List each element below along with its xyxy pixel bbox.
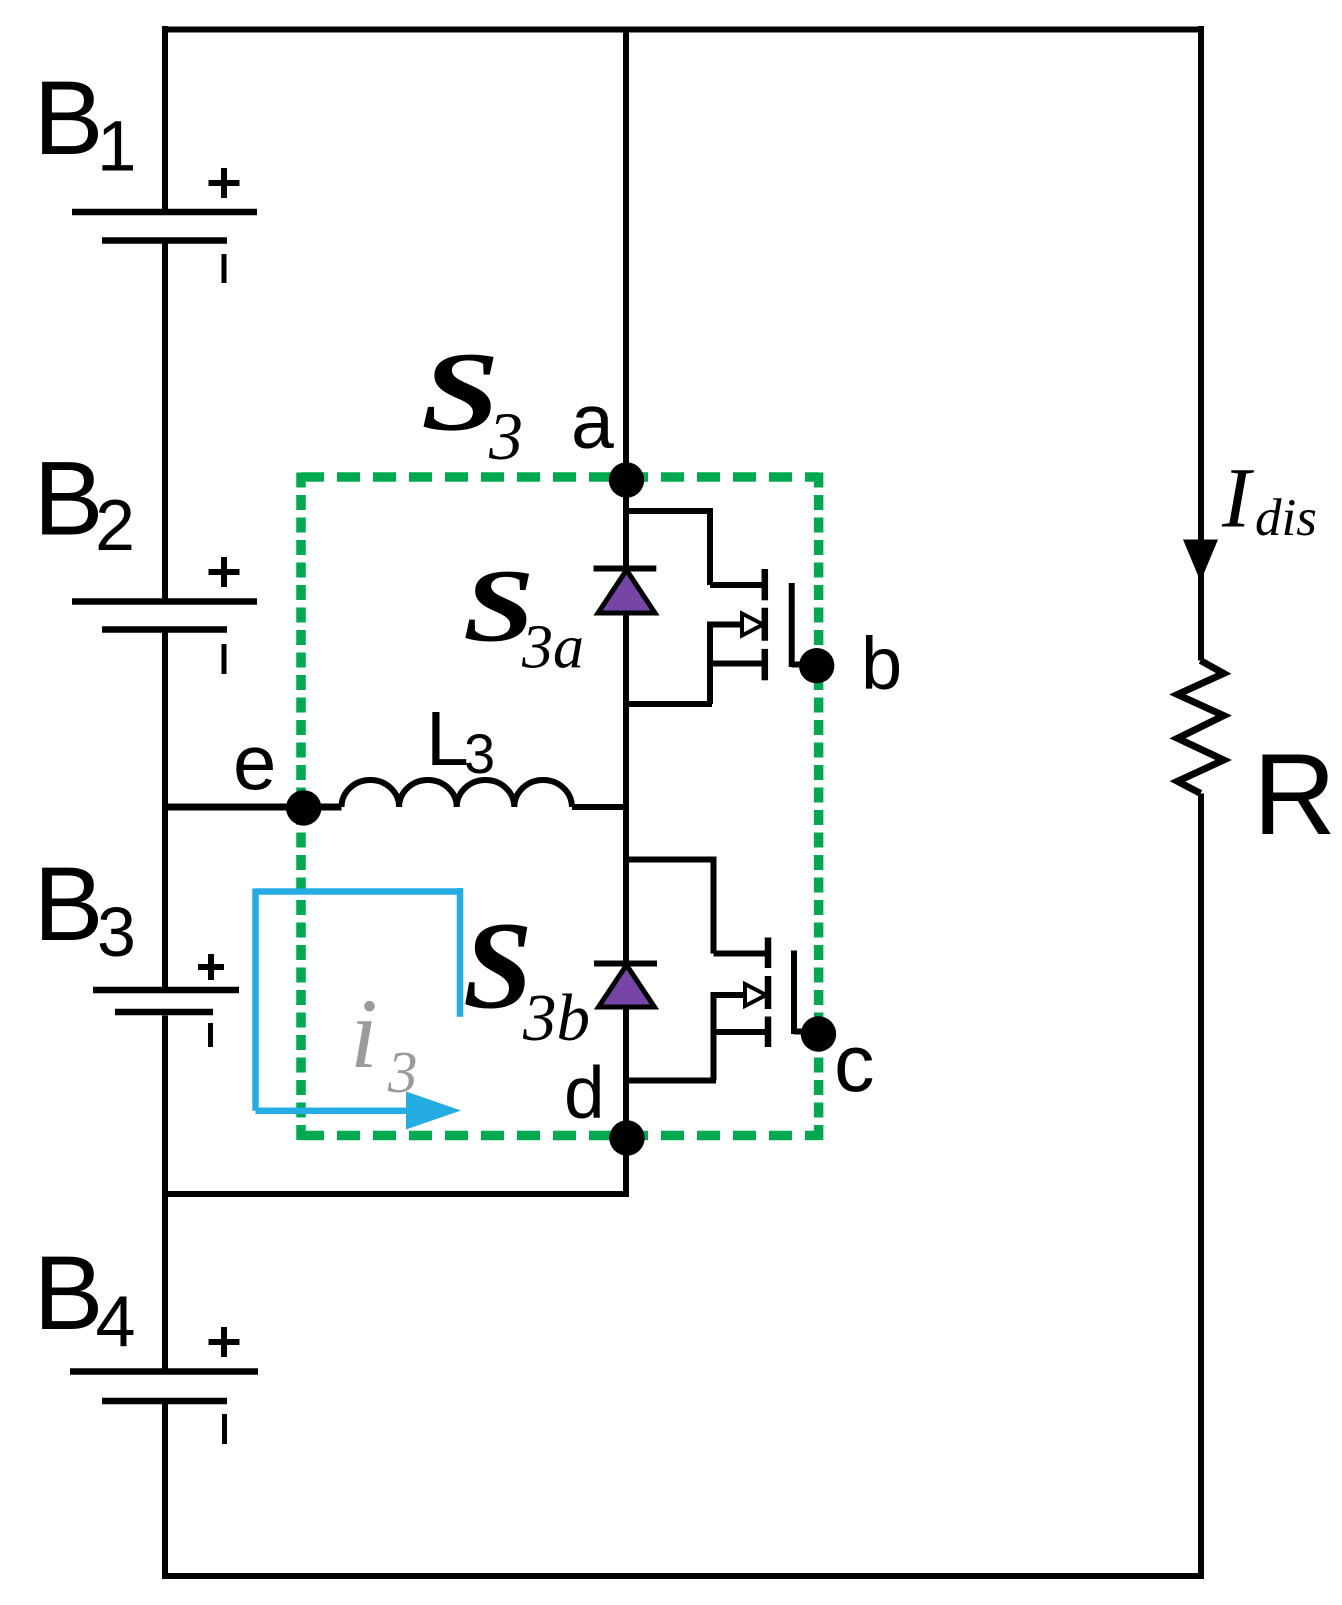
svg-text:1: 1 bbox=[97, 108, 137, 187]
svg-text:dis: dis bbox=[1255, 489, 1317, 547]
svg-text:d: d bbox=[564, 1053, 605, 1134]
svg-text:3: 3 bbox=[387, 1039, 418, 1105]
svg-text:3a: 3a bbox=[521, 614, 584, 682]
svg-text:b: b bbox=[861, 622, 902, 705]
svg-text:3: 3 bbox=[488, 398, 523, 474]
svg-text:B: B bbox=[34, 441, 104, 558]
svg-text:S: S bbox=[421, 329, 500, 454]
svg-text:a: a bbox=[571, 379, 614, 465]
svg-text:4: 4 bbox=[96, 1283, 136, 1363]
svg-text:L: L bbox=[426, 696, 469, 782]
svg-text:B: B bbox=[34, 1235, 104, 1352]
svg-text:R: R bbox=[1253, 731, 1336, 859]
svg-text:B: B bbox=[34, 846, 104, 963]
svg-text:3: 3 bbox=[97, 893, 136, 971]
svg-text:3b: 3b bbox=[522, 981, 590, 1055]
svg-text:2: 2 bbox=[95, 486, 135, 566]
svg-text:3: 3 bbox=[464, 722, 495, 785]
svg-text:e: e bbox=[233, 718, 276, 806]
svg-text:I: I bbox=[1221, 450, 1254, 546]
svg-text:B: B bbox=[34, 60, 104, 177]
svg-text:i: i bbox=[350, 978, 378, 1089]
svg-text:c: c bbox=[834, 1019, 875, 1109]
